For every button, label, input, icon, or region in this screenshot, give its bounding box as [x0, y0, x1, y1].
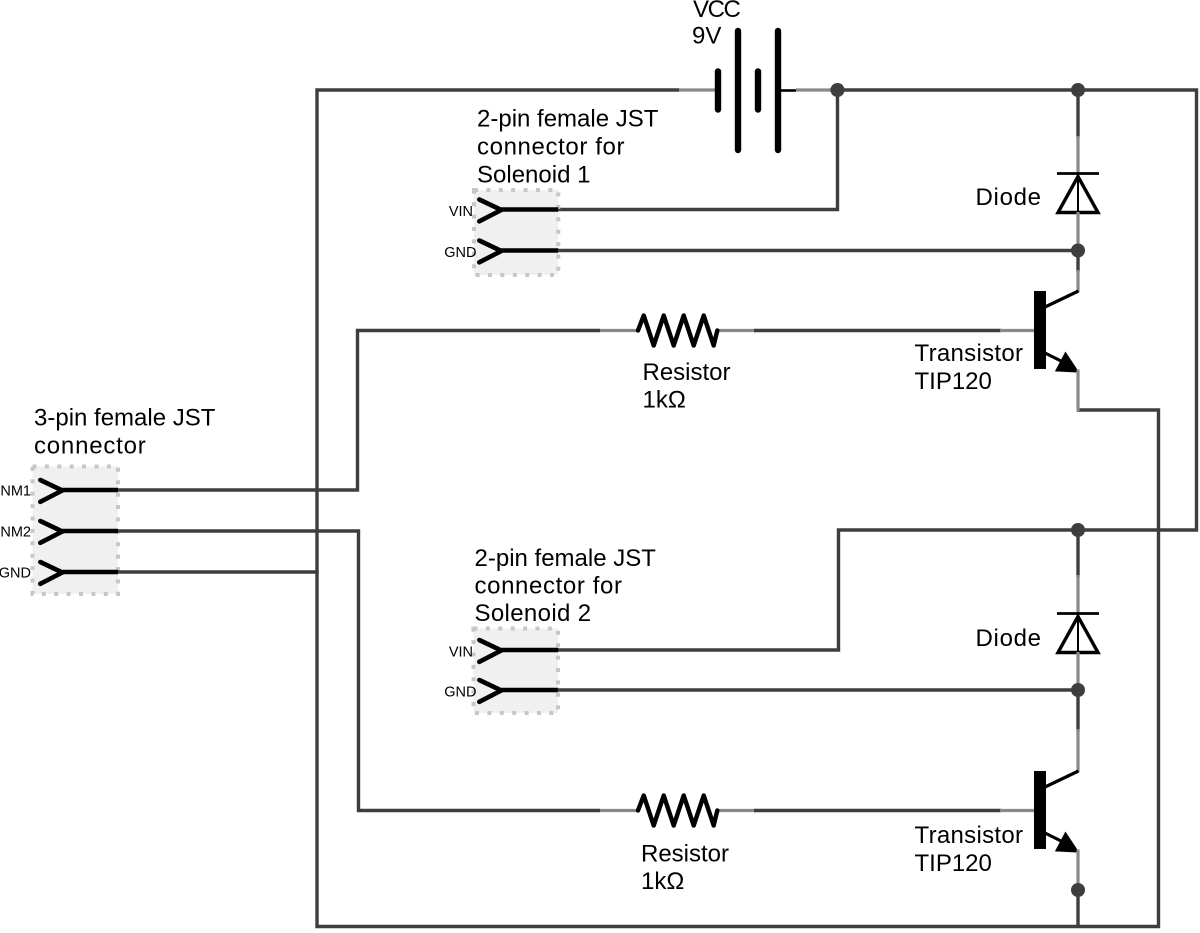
connector J1 pin GND [0, 562, 118, 584]
diode D1 label [976, 184, 1042, 211]
wire resistor R1 to transistor Q1 base [754, 329, 1036, 332]
svg-text:Resistor: Resistor [641, 841, 729, 868]
svg-text:NM1: NM1 [0, 484, 31, 500]
connector J3 label [475, 545, 657, 627]
svg-text:TIP120: TIP120 [915, 850, 992, 877]
svg-text:connector for: connector for [475, 573, 623, 600]
svg-text:Solenoid 1: Solenoid 1 [477, 162, 590, 189]
junction dot solenoid2 feed node [1071, 523, 1085, 537]
transistor Q1 TIP120 [1034, 291, 1079, 372]
transistor Q2 TIP120 [1034, 771, 1079, 852]
connector J2 pin VIN [449, 200, 558, 222]
wire NM2 to resistor row 2 [118, 531, 600, 811]
3-pin female JST connector : box [33, 467, 119, 595]
connector J1 pin NM1 [0, 480, 118, 502]
transistor Q1 label [915, 340, 1024, 395]
svg-text:Resistor: Resistor [643, 359, 731, 386]
wire GND1: from solenoid1 connector to diode/transistor node [558, 249, 1079, 252]
svg-text:GND: GND [444, 245, 476, 261]
resistor R1 label 1kΩ [643, 359, 731, 414]
connector J2 pin GND [444, 241, 558, 263]
junction dot diode1 / collector1 node [1071, 244, 1085, 258]
wire node to collector 1 [1076, 251, 1079, 292]
diode D2 lower lead [1076, 652, 1079, 688]
connector J3 pin GND [444, 680, 558, 702]
wire VIN1: from solenoid1 connector up to battery node [558, 90, 838, 210]
connector J3 pin VIN [449, 640, 558, 662]
wire GND2: from solenoid2 connector to diode2/collector2 node [558, 688, 1079, 691]
svg-text:Diode: Diode [976, 184, 1042, 211]
diode D1 lower lead [1076, 212, 1079, 249]
svg-text:2-pin female JST: 2-pin female JST [477, 106, 659, 133]
transistor Q2 label [915, 822, 1024, 877]
resistor R2 leads [600, 809, 756, 812]
connector J1 label [34, 405, 216, 460]
svg-text:3-pin female JST: 3-pin female JST [34, 405, 216, 432]
wire from top node down to diode 1 [1076, 90, 1079, 175]
wire NM1 to resistor row 1 [118, 331, 600, 491]
wire emitter 2 to bottom rail [1076, 890, 1079, 927]
battery label VCC 9V [692, 0, 741, 50]
svg-text:connector: connector [34, 433, 147, 460]
svg-text:Diode: Diode [976, 625, 1042, 652]
svg-text:1kΩ: 1kΩ [643, 387, 686, 414]
connector J1 pin NM2 [0, 521, 118, 543]
svg-text:VCC: VCC [693, 0, 741, 23]
2-pin female JST connector for Solenoid 1 : box [474, 190, 558, 275]
junction dot diode2 / collector2 node [1071, 683, 1085, 697]
svg-text:Solenoid 2: Solenoid 2 [475, 600, 592, 627]
diode D1 [1057, 174, 1099, 214]
junction dot emitter 2 to ground rail [1071, 883, 1085, 897]
wire node to collector 2 [1076, 690, 1079, 772]
svg-text:2-pin female JST: 2-pin female JST [475, 545, 657, 572]
svg-text:VIN: VIN [449, 204, 473, 220]
junction dot at battery output [831, 83, 845, 97]
svg-text:Transistor: Transistor [915, 822, 1024, 849]
svg-text:GND: GND [444, 685, 476, 701]
svg-text:VIN: VIN [449, 645, 473, 661]
svg-text:connector for: connector for [477, 134, 625, 161]
resistor R2 zigzag [638, 796, 717, 826]
svg-text:Transistor: Transistor [915, 340, 1024, 367]
wire GND of J1 to left border [118, 570, 319, 573]
svg-text:1kΩ: 1kΩ [641, 868, 684, 895]
wire outer loop right: top-right segment, right border, solenoid2 feed line, vertical to VIN2, VIN2 horizontal [558, 90, 1197, 650]
transistor Q2 emitter lead down [1076, 850, 1079, 889]
2-pin female JST connector for Solenoid 2 : box [474, 629, 559, 714]
diode D2 label [976, 625, 1042, 652]
wire node down to diode 2 [1076, 530, 1079, 615]
svg-text:NM2: NM2 [0, 525, 31, 541]
svg-text:TIP120: TIP120 [915, 368, 992, 395]
wire resistor R2 to transistor Q2 base [754, 809, 1036, 812]
svg-text:GND: GND [0, 566, 31, 582]
junction dot top of diode 1 branch [1071, 83, 1085, 97]
battery VCC 9V [679, 31, 832, 150]
resistor R1 zigzag [638, 316, 717, 346]
resistor R2 label 1kΩ [641, 841, 729, 896]
connector J2 label [477, 106, 659, 189]
wire outer loop left: top-left segment, left border, bottom border, lower-right vertical, emitter1 horizontal [317, 90, 1159, 927]
resistor R1 leads [600, 329, 756, 332]
transistor Q1 emitter lead down [1076, 370, 1079, 412]
diode D2 [1057, 614, 1099, 654]
svg-text:9V: 9V [692, 23, 721, 50]
